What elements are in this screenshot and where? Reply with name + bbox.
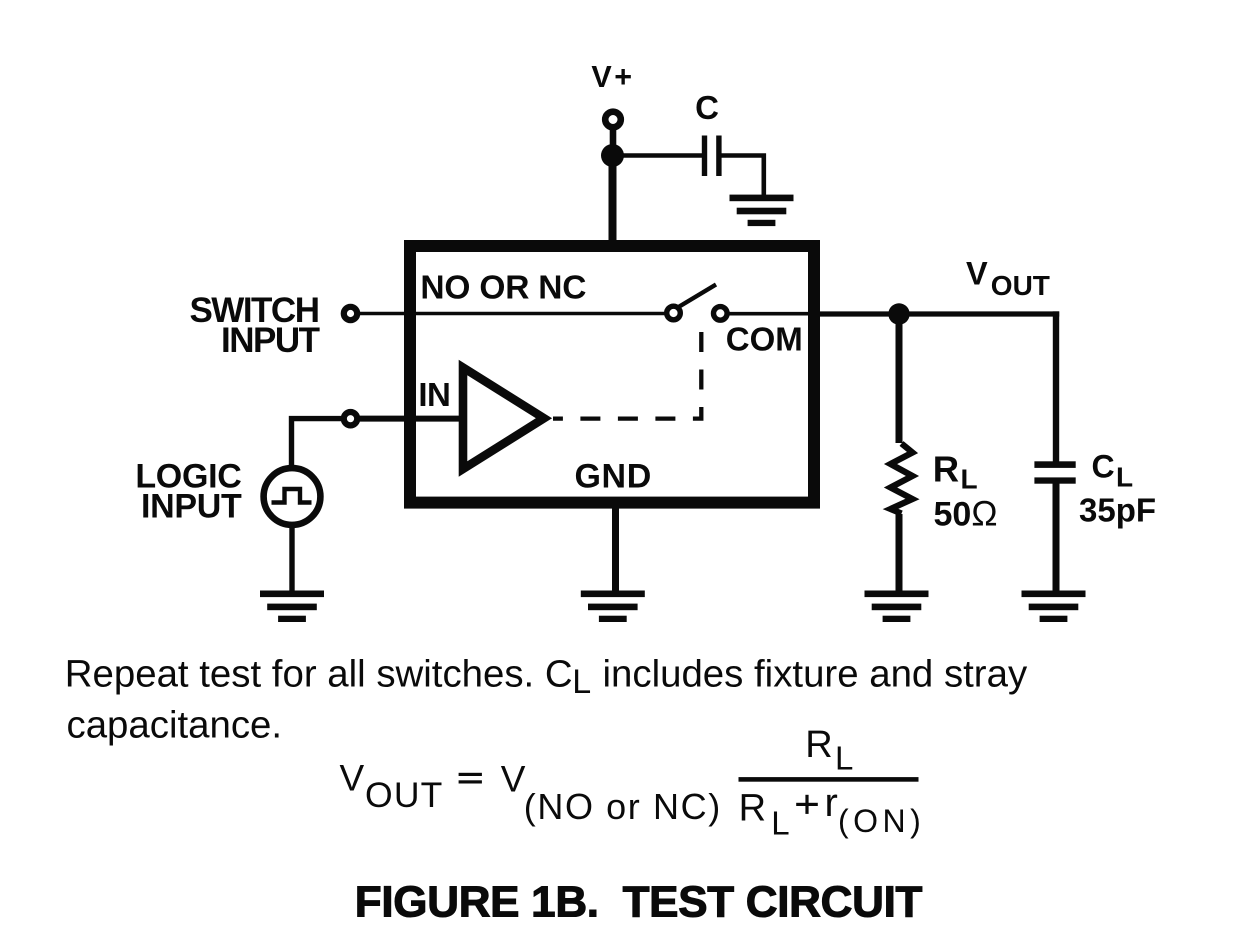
wire GND pin to ground (612, 503, 619, 592)
ground of resistor RL (865, 591, 929, 623)
label VOUT (966, 256, 1050, 302)
junction dot VOUT node (888, 303, 909, 324)
ground of GND pin (581, 591, 645, 623)
formula fraction bar (739, 777, 919, 782)
capacitor C (702, 136, 722, 177)
svg-text:INPUT: INPUT (141, 488, 242, 526)
wire switch to box edge (728, 312, 815, 316)
svg-text:r: r (825, 781, 838, 825)
buffer triangle driver (463, 368, 544, 470)
svg-text:(ON): (ON) (838, 803, 925, 839)
wire terminal to pulse source (292, 419, 345, 466)
wire V+ junction to box (609, 155, 617, 246)
capacitor CL (1034, 461, 1075, 483)
switch left contact (667, 306, 681, 320)
switch right contact (714, 307, 728, 321)
svg-text:(NO or NC): (NO or NC) (524, 786, 722, 827)
ground of capacitor CL (1022, 591, 1086, 623)
svg-text:IN: IN (418, 376, 450, 413)
svg-text:L: L (1116, 462, 1133, 493)
wire V+ terminal to junction (610, 130, 617, 152)
note text line 1 (65, 653, 1028, 702)
wire resistor RL to ground (896, 514, 903, 592)
svg-text:Repeat test for all switches.: Repeat test for all switches. C (65, 653, 573, 696)
terminal LOGIC INPUT (344, 412, 357, 425)
svg-text:35pF: 35pF (1079, 492, 1156, 529)
svg-text:R: R (805, 724, 832, 766)
svg-text:50Ω: 50Ω (934, 495, 998, 534)
svg-text:OUT: OUT (365, 775, 444, 815)
svg-text:includes fixture and stray: includes fixture and stray (603, 653, 1028, 696)
svg-text:C: C (695, 89, 719, 126)
formula numerator RL (805, 724, 853, 777)
wire capacitor CL to ground (1053, 484, 1060, 593)
label LOGIC INPUT (135, 458, 242, 526)
formula VOUT left side (340, 758, 722, 827)
formula denominator RL + rON (739, 781, 926, 842)
svg-text:GND: GND (575, 458, 652, 496)
wire capacitor C to ground (721, 156, 764, 197)
svg-text:L: L (572, 663, 591, 701)
svg-text:V: V (966, 256, 988, 292)
terminal SWITCH INPUT (344, 307, 357, 320)
svg-text:NO OR NC: NO OR NC (420, 269, 586, 306)
svg-text:OUT: OUT (991, 270, 1050, 301)
resistor RL (891, 444, 913, 514)
svg-text:V: V (340, 758, 365, 799)
wire logic input to buffer (357, 416, 461, 422)
pulse source generator (264, 468, 321, 525)
label RL (933, 448, 978, 494)
wire junction to capacitor C (612, 153, 703, 158)
label CL (1092, 449, 1134, 493)
switch lever (679, 285, 717, 308)
svg-text:L: L (835, 740, 853, 777)
svg-text:C: C (1092, 449, 1115, 485)
svg-text:V: V (501, 759, 526, 800)
terminal V+ (605, 112, 621, 128)
wire VOUT node to resistor RL (896, 314, 903, 443)
svg-text:R: R (739, 787, 766, 829)
svg-text:FIGURE 1B. TEST CIRCUIT: FIGURE 1B. TEST CIRCUIT (355, 878, 923, 927)
wire switch input to switch (357, 312, 666, 316)
svg-text:L: L (771, 805, 789, 842)
svg-text:R: R (933, 448, 959, 489)
svg-text:COM: COM (726, 321, 803, 358)
label SWITCH INPUT (189, 291, 319, 360)
wire pulse source to ground (289, 525, 294, 592)
svg-text:V+: V+ (591, 60, 634, 94)
svg-text:INPUT: INPUT (221, 321, 320, 360)
box DUT switch (410, 246, 814, 503)
wire box to VOUT node and CL corner (814, 311, 1059, 316)
ground of capacitor C (730, 195, 794, 227)
dashed control link switch (553, 332, 701, 419)
ground of pulse source (260, 591, 324, 623)
svg-text:L: L (961, 464, 978, 495)
junction dot V+ node (601, 144, 624, 167)
svg-text:capacitance.: capacitance. (67, 704, 283, 747)
